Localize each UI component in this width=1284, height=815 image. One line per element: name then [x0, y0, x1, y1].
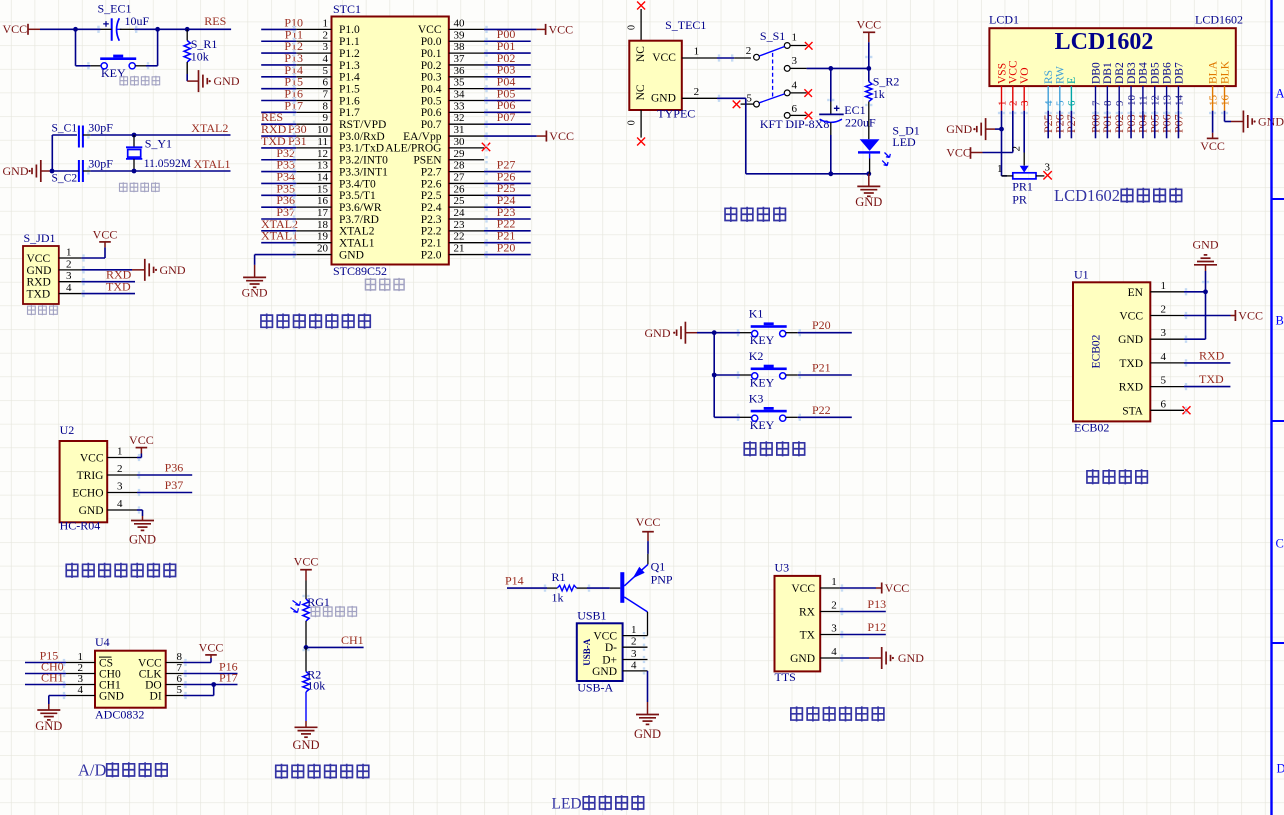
net label P37 — [276, 205, 295, 219]
net label P02 — [497, 51, 516, 65]
svg-text:GND: GND — [946, 122, 972, 136]
svg-text:ADC0832: ADC0832 — [95, 708, 144, 722]
svg-text:3: 3 — [117, 481, 123, 493]
annotation download-port text — [27, 305, 58, 315]
net label P21 (key) — [812, 361, 831, 375]
net label P07 (lcd) — [1171, 114, 1185, 133]
wire U4 VCC — [183, 655, 211, 663]
wire gnd to key rail — [697, 333, 714, 418]
svg-text:8: 8 — [1102, 100, 1114, 106]
svg-text:USB1: USB1 — [577, 609, 606, 623]
wire P14 to R1 — [507, 587, 547, 589]
net label P03 — [497, 63, 516, 77]
svg-text:DB0: DB0 — [1090, 62, 1102, 84]
net label P17 — [284, 98, 303, 112]
svg-text:2: 2 — [1008, 101, 1020, 107]
svg-text:EA/Vpp: EA/Vpp — [403, 131, 442, 143]
svg-text:4: 4 — [1161, 351, 1167, 363]
svg-text:21: 21 — [454, 243, 465, 255]
pin 38 P0.1 of STC1 — [421, 41, 484, 60]
net label P14 port — [505, 573, 524, 587]
svg-text:P0.2: P0.2 — [421, 60, 442, 72]
no-connect X on PR1 pin3 — [1043, 171, 1051, 179]
svg-text:P36: P36 — [165, 461, 184, 475]
svg-text:15: 15 — [317, 183, 329, 195]
net label P23 — [497, 205, 516, 219]
svg-text:10: 10 — [1126, 95, 1138, 107]
pin 0 bottom of S_TEC1 — [627, 110, 642, 138]
power port VCC (download) — [93, 227, 118, 242]
pin 6 P1.5 of STC1 — [296, 77, 360, 96]
svg-text:3: 3 — [1045, 162, 1051, 174]
title mcu minimal system — [260, 314, 371, 329]
title bluetooth module — [1086, 469, 1148, 484]
svg-text:RES: RES — [204, 14, 226, 28]
net label P02 (lcd) — [1112, 114, 1126, 133]
wire U3 GND — [840, 657, 882, 659]
net label P32 — [276, 146, 295, 160]
svg-text:DB3: DB3 — [1126, 62, 1138, 84]
pin 31 EA/Vpp of STC1 — [403, 124, 484, 143]
svg-text:14: 14 — [317, 171, 329, 183]
svg-text:VO: VO — [1019, 67, 1031, 84]
svg-text:GND: GND — [645, 326, 671, 340]
pin 0 top of S_TEC1 — [627, 9, 642, 41]
svg-text:13: 13 — [1161, 95, 1173, 107]
pin 5 DI of U4 — [150, 684, 184, 703]
svg-text:0: 0 — [627, 25, 638, 30]
svg-text:10k: 10k — [307, 679, 325, 693]
node junction key rail K1 — [712, 330, 717, 335]
connector S_TEC1 TYPEC body — [629, 18, 706, 121]
wire GND pin20 — [255, 255, 297, 278]
wire P10 row — [261, 28, 296, 30]
svg-text:DB5: DB5 — [1150, 62, 1162, 84]
pin 1 CS of U4 — [66, 651, 113, 670]
resistor R2 10k — [303, 668, 325, 693]
svg-text:P2.6: P2.6 — [421, 178, 442, 190]
svg-text:5: 5 — [1055, 100, 1067, 106]
title LED lighting circuit — [552, 795, 645, 812]
svg-text:PSEN: PSEN — [413, 155, 442, 167]
wire U4 GND — [49, 696, 66, 711]
svg-text:GND: GND — [27, 265, 52, 277]
pin 2 TRIG of U2 — [77, 463, 137, 482]
svg-text:STC1: STC1 — [333, 2, 361, 16]
svg-text:RW: RW — [1055, 66, 1067, 84]
no-connect X on pin30 — [482, 143, 490, 151]
svg-text:6: 6 — [1066, 100, 1078, 106]
svg-text:GND: GND — [129, 533, 156, 547]
svg-text:25: 25 — [454, 195, 466, 207]
net label RXD P30 — [261, 122, 307, 136]
wire Q1 collector to USB1 — [646, 612, 648, 636]
svg-text:XTAL1: XTAL1 — [261, 229, 298, 243]
wire lcd pin down — [1177, 111, 1179, 139]
pin 36 P0.3 of STC1 — [421, 65, 484, 84]
pin 14 P3.4/T0 of STC1 — [296, 171, 376, 190]
svg-text:CH1: CH1 — [341, 633, 364, 647]
switch S_S1 KFT DIP-8X8 — [733, 29, 830, 131]
svg-text:K1: K1 — [749, 307, 764, 321]
ground GND (light sensor) — [292, 727, 319, 752]
ground GND (adc) — [35, 710, 62, 733]
svg-text:GND: GND — [3, 164, 29, 178]
svg-text:P1.4: P1.4 — [339, 72, 360, 84]
pin 8 P1.7 of STC1 — [296, 100, 360, 119]
power port VCC (adc) — [199, 640, 224, 655]
pin 21 P2.0 of STC1 — [421, 243, 484, 262]
svg-text:BLK: BLK — [1219, 60, 1231, 84]
svg-text:4: 4 — [1043, 100, 1055, 106]
net label CH1 (adc) — [41, 671, 64, 685]
svg-text:40: 40 — [454, 17, 466, 29]
wire lcd pin down — [1059, 111, 1061, 139]
svg-text:4: 4 — [66, 282, 72, 294]
pin 6 DO of U4 — [145, 673, 183, 692]
wire lcd BLK to GND — [1225, 111, 1244, 122]
pin 20 GND of STC1 — [296, 243, 364, 262]
svg-text:K2: K2 — [749, 349, 764, 363]
svg-text:NC: NC — [635, 84, 647, 100]
svg-text:3: 3 — [323, 41, 329, 53]
svg-text:ECB02: ECB02 — [1074, 421, 1109, 435]
svg-text:NC: NC — [635, 46, 647, 62]
net label P07 — [497, 110, 516, 124]
wire lcd pin down — [1118, 111, 1120, 139]
svg-text:GND: GND — [1193, 238, 1219, 252]
wire K1 to P20 — [798, 332, 852, 334]
power port VCC (mcu pin40) — [546, 22, 574, 36]
net label CH0 (adc) — [41, 660, 64, 674]
node junction crystal bottom — [132, 169, 137, 174]
svg-text:4: 4 — [78, 684, 84, 696]
wire P24 row — [484, 206, 531, 208]
connector S_JD1 — [23, 231, 59, 304]
svg-text:VCC: VCC — [549, 129, 574, 143]
wire P23 row — [484, 218, 531, 220]
pin 17 P3.7/RD of STC1 — [296, 207, 379, 226]
pin 2 D- of USB1 — [605, 636, 648, 655]
power port VCC (ultrasonic) — [129, 433, 154, 448]
svg-text:EN: EN — [1128, 287, 1144, 299]
sheet border tick 1 — [1272, 198, 1284, 200]
net label P14 — [284, 63, 303, 77]
svg-text:VCC: VCC — [856, 18, 881, 32]
title ultrasonic ranging module — [65, 563, 176, 578]
svg-text:VCC: VCC — [129, 433, 154, 447]
svg-text:TX: TX — [800, 630, 816, 642]
net label P35 — [276, 181, 295, 195]
wire U4 CLK to P16 — [183, 673, 237, 675]
svg-text:TXD: TXD — [106, 280, 131, 294]
svg-text:LCD1: LCD1 — [989, 13, 1019, 27]
resistor S_R1 10k — [184, 29, 217, 63]
wire U3 TX to P12 — [840, 634, 886, 636]
net label P27 — [497, 157, 516, 171]
sheet zone letter B — [1276, 314, 1284, 328]
power port VCC (mcu pin31) — [546, 129, 574, 143]
node junction EC1 bottom — [828, 171, 833, 176]
title light sampling circuit — [275, 764, 370, 779]
svg-text:S_TEC1: S_TEC1 — [665, 18, 706, 32]
wire P37 row — [261, 218, 296, 220]
svg-text:19: 19 — [317, 231, 329, 243]
svg-text:GND: GND — [242, 286, 268, 300]
title power circuit — [724, 207, 786, 222]
svg-text:TXD: TXD — [27, 289, 51, 301]
ground GND (voice) — [882, 647, 925, 669]
svg-text:S_JD1: S_JD1 — [24, 231, 56, 245]
svg-text:4: 4 — [631, 659, 637, 671]
pin 25 P2.4 of STC1 — [421, 195, 484, 214]
svg-text:KEY: KEY — [750, 333, 775, 347]
svg-text:P0.7: P0.7 — [421, 119, 442, 131]
svg-text:P14: P14 — [505, 573, 524, 587]
svg-text:XTAL2: XTAL2 — [191, 121, 228, 135]
svg-text:VCC: VCC — [1200, 139, 1225, 153]
svg-text:28: 28 — [454, 160, 466, 172]
svg-text:1: 1 — [694, 46, 700, 58]
svg-text:GND: GND — [1118, 334, 1143, 346]
wire U1 RXD — [1184, 386, 1230, 388]
svg-text:C: C — [1276, 537, 1284, 551]
wire XTAL1 row (mcu) — [261, 242, 296, 244]
svg-text:3: 3 — [831, 623, 837, 635]
mcu U-STC1 STC89C52 body — [332, 2, 449, 278]
node junction CH1 — [304, 645, 309, 650]
svg-text:RXD: RXD — [27, 277, 51, 289]
svg-text:ECB02: ECB02 — [1091, 334, 1103, 368]
pin 16 P3.6/WR of STC1 — [296, 195, 382, 214]
net label P36 — [276, 193, 295, 207]
svg-text:VCC: VCC — [652, 52, 676, 64]
svg-text:P2.5: P2.5 — [421, 190, 442, 202]
key switch K1 — [714, 307, 798, 348]
no-connect X top of S_TEC1 — [637, 2, 645, 10]
svg-text:P1.0: P1.0 — [339, 24, 360, 36]
sheet border tick 2 — [1272, 420, 1284, 422]
pin 39 P0.0 of STC1 — [421, 29, 484, 48]
pin 24 P2.3 of STC1 — [421, 207, 484, 226]
title A/D conversion circuit — [78, 761, 168, 780]
node junction DO/DI — [211, 682, 216, 687]
pin 30 ALE/PROG of STC1 — [385, 136, 484, 155]
svg-text:GND: GND — [592, 666, 617, 678]
svg-text:12: 12 — [317, 148, 328, 160]
svg-text:10: 10 — [317, 124, 329, 136]
svg-text:2: 2 — [1161, 304, 1167, 316]
wire U1 EN/GND net — [1184, 265, 1206, 339]
net label RES — [204, 14, 226, 28]
wire U2 ECHO — [137, 492, 192, 494]
wire K3 to P22 — [798, 416, 852, 418]
svg-text:U3: U3 — [775, 561, 790, 575]
svg-text:P13: P13 — [867, 597, 886, 611]
svg-text:Q1: Q1 — [651, 560, 666, 574]
net label P22 — [497, 217, 516, 231]
sheet zone letter A — [1276, 87, 1284, 101]
wire lcd pin down — [1154, 111, 1156, 139]
wire switch pin3 to VCC rail — [807, 67, 869, 69]
svg-text:GND: GND — [634, 727, 661, 741]
node junction VCC rail — [866, 66, 871, 71]
module U3 TTS body — [775, 561, 821, 685]
node junction crystal gnd — [50, 169, 55, 174]
pin 3 D+ of USB1 — [602, 648, 647, 667]
wire S_S2 right riser — [146, 29, 158, 66]
pin 4 GND of U3 — [790, 646, 840, 665]
lcd LCD1 LCD1602 body — [989, 13, 1243, 87]
title voice output module — [790, 706, 885, 721]
svg-text:6: 6 — [323, 77, 329, 89]
wire S_TEC1 pin1 to switch — [717, 57, 734, 59]
svg-text:P3.6/WR: P3.6/WR — [339, 202, 382, 214]
net label P03 (lcd) — [1124, 114, 1138, 133]
pin 3 TX of U3 — [800, 623, 840, 642]
svg-text:RX: RX — [799, 607, 816, 619]
svg-text:4: 4 — [323, 53, 329, 65]
wire VCC to Q1 emitter — [647, 541, 649, 564]
sheet zone letter D — [1277, 762, 1284, 776]
net label XTAL2 — [191, 121, 228, 135]
svg-text:DB7: DB7 — [1173, 62, 1185, 84]
svg-text:4: 4 — [792, 79, 798, 91]
wire RG1 to CH1 node — [305, 621, 307, 647]
svg-text:7: 7 — [323, 89, 329, 101]
node junction at S_S2 right riser — [155, 27, 160, 32]
svg-text:R1: R1 — [552, 570, 566, 584]
net label P27 (lcd) — [1064, 114, 1078, 133]
wire U3 RX to P13 — [840, 611, 886, 613]
wire XTAL2 row (mcu) — [261, 230, 296, 232]
net label P26 — [497, 169, 516, 183]
wire XTAL1 row — [52, 170, 231, 172]
pin 1 VCC of S_TEC1 — [652, 46, 717, 65]
svg-text:16: 16 — [317, 195, 329, 207]
svg-text:K3: K3 — [749, 391, 764, 405]
svg-text:1: 1 — [997, 163, 1003, 175]
wire S_JD1 pin1 to VCC — [81, 243, 105, 259]
svg-text:PNP: PNP — [651, 572, 673, 586]
node junction EC1 top — [828, 66, 833, 71]
sheet border vertical line — [1270, 0, 1272, 815]
pin 2 RX of U3 — [799, 600, 840, 619]
svg-text:CH1: CH1 — [41, 671, 64, 685]
pin 1 EN of U1 — [1128, 280, 1184, 299]
ground GND (lcd left) — [946, 118, 995, 140]
photoresistor RG1 — [291, 595, 330, 621]
pin 35 P0.4 of STC1 — [421, 77, 484, 96]
pin 12 DB5 of LCD1 — [1150, 62, 1162, 111]
net label P04 (lcd) — [1136, 114, 1150, 133]
wire K2 to P21 — [798, 374, 852, 376]
capacitor S_C1 30pF — [52, 121, 114, 172]
module U2 HC-R04 body — [60, 423, 108, 533]
net label P11 — [285, 27, 303, 41]
net label RES (mcu) — [261, 110, 283, 124]
svg-text:KEY: KEY — [750, 418, 775, 432]
net label XTAL1 — [194, 157, 231, 171]
wire VCC to RG1 — [305, 581, 307, 600]
no-connect X bottom of S_TEC1 — [637, 138, 645, 146]
net label P12 — [867, 620, 886, 634]
net label TXD (download) — [106, 280, 131, 294]
svg-text:0: 0 — [627, 120, 638, 125]
net label P10 — [284, 15, 303, 29]
svg-text:GND: GND — [160, 263, 186, 277]
svg-text:U4: U4 — [95, 635, 110, 649]
wire P01 row — [484, 52, 531, 54]
module U1 ECB02 body — [1073, 268, 1150, 435]
net label TXD P31 — [261, 134, 307, 148]
svg-text:P0.1: P0.1 — [421, 48, 442, 60]
svg-text:2: 2 — [631, 636, 637, 648]
pin 10 DB3 of LCD1 — [1126, 62, 1138, 111]
pin 15 BLA of LCD1 — [1207, 60, 1219, 110]
wire U1 TXD — [1184, 362, 1230, 364]
svg-text:GND: GND — [651, 93, 676, 105]
svg-text:VCC: VCC — [791, 583, 815, 595]
svg-text:1: 1 — [117, 446, 123, 458]
ground GND (mcu) — [242, 277, 268, 299]
wire CH1 row — [25, 684, 66, 686]
pin 4 TXD of U1 — [1119, 351, 1184, 370]
net label P01 — [497, 39, 516, 53]
svg-text:DB1: DB1 — [1102, 62, 1114, 84]
net label P25 — [497, 181, 516, 195]
svg-text:P3.2/INT0: P3.2/INT0 — [339, 155, 388, 167]
svg-text:P20: P20 — [812, 318, 831, 332]
wire CH1 tap — [306, 646, 364, 648]
svg-text:1: 1 — [631, 624, 637, 636]
wire P32 row — [261, 159, 296, 161]
sheet border tick 3 — [1272, 642, 1284, 644]
pin 11 DB4 of LCD1 — [1138, 62, 1150, 111]
net label P00 — [497, 27, 516, 41]
wire P00 row — [484, 40, 531, 42]
ground GND (crystal) — [3, 160, 53, 182]
svg-text:P0.5: P0.5 — [421, 95, 442, 107]
pin 33 P0.6 of STC1 — [421, 100, 484, 119]
svg-text:2: 2 — [117, 463, 123, 475]
pin 5 RXD of U1 — [1119, 375, 1184, 394]
pin 1 VCC of USB1 — [593, 624, 647, 643]
svg-text:TTS: TTS — [775, 670, 796, 684]
svg-text:USB-A: USB-A — [577, 681, 613, 695]
wire XTAL2 row — [90, 134, 230, 136]
svg-text:2: 2 — [694, 86, 700, 98]
net connection marks — [63, 26, 1228, 699]
wire P15 row — [25, 662, 66, 664]
annotation mcu text — [365, 278, 405, 291]
svg-text:16: 16 — [1219, 95, 1231, 107]
svg-text:RS: RS — [1043, 70, 1055, 84]
svg-text:26: 26 — [454, 183, 466, 195]
svg-text:P3.1/TxD: P3.1/TxD — [339, 143, 384, 155]
svg-text:31: 31 — [454, 124, 465, 136]
svg-text:14: 14 — [1173, 95, 1185, 107]
svg-text:1: 1 — [323, 17, 329, 29]
svg-text:17: 17 — [317, 207, 329, 219]
svg-text:1: 1 — [831, 576, 837, 588]
wire P36 row — [261, 206, 296, 208]
svg-text:2: 2 — [831, 600, 837, 612]
svg-text:3: 3 — [792, 55, 798, 67]
svg-text:B: B — [1276, 314, 1284, 328]
wire P26 row — [484, 182, 531, 184]
svg-text:3: 3 — [66, 270, 72, 282]
